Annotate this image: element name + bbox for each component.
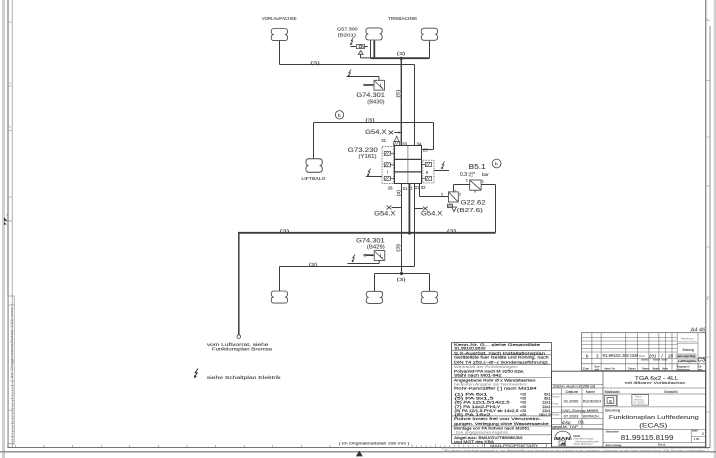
svg-text:Blatt: Blatt	[692, 428, 698, 432]
svg-text:(B429): (B429)	[367, 244, 385, 250]
svg-text:C5: C5	[698, 357, 706, 364]
svg-text:81.99115.8199: 81.99115.8199	[621, 433, 674, 442]
svg-text:01.2000: 01.2000	[564, 399, 580, 404]
svg-text:Name: Name	[642, 366, 649, 370]
svg-text:Funktionsplan Bremse: Funktionsplan Bremse	[212, 346, 273, 351]
svg-text:Funktionsplan Luftfederung: Funktionsplan Luftfederung	[609, 415, 699, 421]
svg-text:CAD-Ztchng.M99S: CAD-Ztchng.M99S	[561, 409, 599, 413]
svg-text:Gepr: Gepr	[552, 402, 558, 406]
svg-text:Luftfragebo.: Luftfragebo.	[678, 359, 697, 363]
svg-text:(3): (3)	[310, 61, 320, 66]
svg-text:(Y161): (Y161)	[359, 154, 377, 160]
svg-text:07.2003: 07.2003	[564, 414, 579, 419]
svg-text:MAN-PROPRIETARY: MAN-PROPRIETARY	[490, 443, 539, 448]
svg-text:Zeichn.-Ausf.n.91258 (d): Zeichn.-Ausf.n.91258 (d)	[553, 385, 595, 389]
svg-text:G74.301: G74.301	[356, 92, 385, 99]
svg-text:Sachnummer: Sachnummer	[606, 429, 619, 433]
svg-text:21: 21	[403, 186, 408, 191]
svg-text:1: 1	[482, 179, 484, 184]
svg-text:G57.300: G57.300	[337, 27, 358, 32]
svg-text:=St: =St	[520, 412, 527, 417]
svg-text:28: 28	[388, 185, 393, 190]
svg-text:Gewicht: Gewicht	[664, 390, 678, 394]
svg-text:(3): (3)	[397, 51, 406, 56]
svg-text:1 Bl.: 1 Bl.	[694, 437, 700, 441]
svg-text:(3): (3)	[397, 277, 407, 282]
svg-text:Maßstab: Maßstab	[605, 390, 620, 394]
svg-text:31: 31	[381, 138, 386, 143]
svg-text:VORLAUFACHSE: VORLAUFACHSE	[262, 16, 297, 22]
svg-text:Ob,: Ob,	[578, 420, 585, 425]
svg-text:(3): (3)	[447, 229, 457, 234]
svg-text:(5): (5)	[395, 89, 400, 98]
svg-text:(3): (3)	[309, 262, 318, 267]
svg-text:B5.1: B5.1	[469, 164, 486, 171]
svg-text:A4 46: A4 46	[690, 328, 707, 334]
svg-text:(8) PA 16x2: (8) PA 16x2	[455, 412, 491, 417]
svg-text:81.99010: 81.99010	[634, 401, 646, 405]
svg-text:2: 2	[459, 191, 461, 196]
svg-text:(3): (3)	[280, 228, 291, 233]
svg-text:25: 25	[423, 148, 428, 153]
svg-text:Werk München: Werk München	[574, 442, 593, 446]
svg-text:Ers.d.: Ers.d.	[658, 443, 666, 447]
svg-text:(3): (3)	[396, 189, 401, 196]
svg-text:I: I	[387, 170, 388, 175]
svg-text:91.99110.J92.01B: 91.99110.J92.01B	[603, 353, 639, 358]
svg-text:mit liftbarer Vorlaufachse: mit liftbarer Vorlaufachse	[625, 381, 686, 385]
svg-text:Norm: Norm	[662, 366, 668, 370]
svg-text:( Im Originalmaßstab 100 mm ): ( Im Originalmaßstab 100 mm )	[339, 441, 410, 445]
svg-text:Name: Name	[586, 389, 595, 394]
svg-text:siehe Schaltplan Elektrik: siehe Schaltplan Elektrik	[207, 375, 282, 380]
svg-text:33: 33	[402, 142, 407, 147]
svg-text:II: II	[426, 170, 428, 175]
svg-text:Benennung: Benennung	[605, 409, 620, 413]
svg-text:Blatt: Blatt	[639, 354, 645, 358]
svg-text:und MGT des KBA: und MGT des KBA	[454, 439, 494, 444]
svg-text:(ECAS): (ECAS)	[639, 423, 667, 430]
svg-text:201: 201	[648, 354, 657, 359]
svg-text:(B27.6): (B27.6)	[457, 208, 483, 214]
svg-text:(B201): (B201)	[338, 32, 357, 37]
svg-text:gepr.M. TAP: gepr.M. TAP	[552, 425, 579, 429]
svg-text:32: 32	[421, 185, 426, 190]
svg-text:KIRPACH: KIRPACH	[583, 414, 599, 419]
svg-text:G54.X: G54.X	[421, 211, 443, 218]
svg-text:LIFTBALG: LIFTBALG	[302, 176, 326, 181]
svg-text:0: 0	[474, 189, 476, 193]
svg-text:Bearb: Bearb	[653, 366, 660, 370]
svg-text:16x1,5: 16x1,5	[539, 412, 551, 417]
svg-text:Aend.-Nr.: Aend.-Nr.	[604, 366, 615, 370]
svg-text:Datum: Datum	[566, 389, 579, 394]
svg-text:bar: bar	[482, 172, 489, 177]
svg-text:TRIEBACHSE: TRIEBACHSE	[388, 16, 417, 22]
svg-text:4: 4	[6, 213, 8, 217]
svg-text:Änderung: Änderung	[683, 348, 695, 352]
svg-text:1: 1	[702, 431, 704, 436]
svg-text:(3): (3)	[396, 243, 401, 252]
svg-text:Ers.f.Ausg.: Ers.f.Ausg.	[606, 443, 622, 447]
svg-text:1: 1	[454, 189, 456, 193]
svg-text:( Im Originalmaßstab 100 mm ): ( Im Originalmaßstab 100 mm )	[10, 304, 14, 382]
svg-text:G22.62: G22.62	[461, 200, 486, 207]
svg-text:MAN: MAN	[555, 436, 570, 441]
svg-text:2: 2	[466, 178, 468, 183]
svg-text:RUDESCH: RUDESCH	[583, 399, 601, 404]
svg-text:zu/ersetzt durch: zu/ersetzt durch	[679, 340, 698, 344]
svg-text:G74.301: G74.301	[356, 237, 385, 244]
svg-text:-0.1: -0.1	[468, 174, 473, 178]
svg-text:Zust: Zust	[583, 366, 589, 370]
svg-text:(3): (3)	[365, 118, 375, 123]
svg-text:2: 2	[441, 192, 443, 197]
svg-text:b: b	[495, 162, 498, 168]
svg-text:Mit dieser Unterlage geprueft: Mit dieser Unterlage geprueft u. zur Wer…	[444, 449, 706, 453]
svg-text:Bearb: Bearb	[552, 395, 560, 399]
svg-text:b: b	[338, 113, 341, 119]
svg-text:gez.vge.Dtg.: gez.vge.Dtg.	[677, 354, 696, 358]
svg-text:S: S	[609, 399, 612, 405]
svg-text:20: 20	[667, 354, 674, 359]
svg-text:G54.X: G54.X	[365, 129, 387, 136]
svg-text:34: 34	[417, 142, 422, 147]
svg-text:Ersatz: Ersatz	[552, 413, 560, 417]
svg-text:23: 23	[415, 185, 420, 190]
svg-text:Datum: Datum	[628, 366, 636, 370]
svg-text:G54.X: G54.X	[374, 211, 396, 218]
svg-text:(B430): (B430)	[367, 100, 384, 106]
svg-text:Rohr-Kennziffer [ ] nach M3184: Rohr-Kennziffer [ ] nach M3184	[454, 386, 538, 391]
